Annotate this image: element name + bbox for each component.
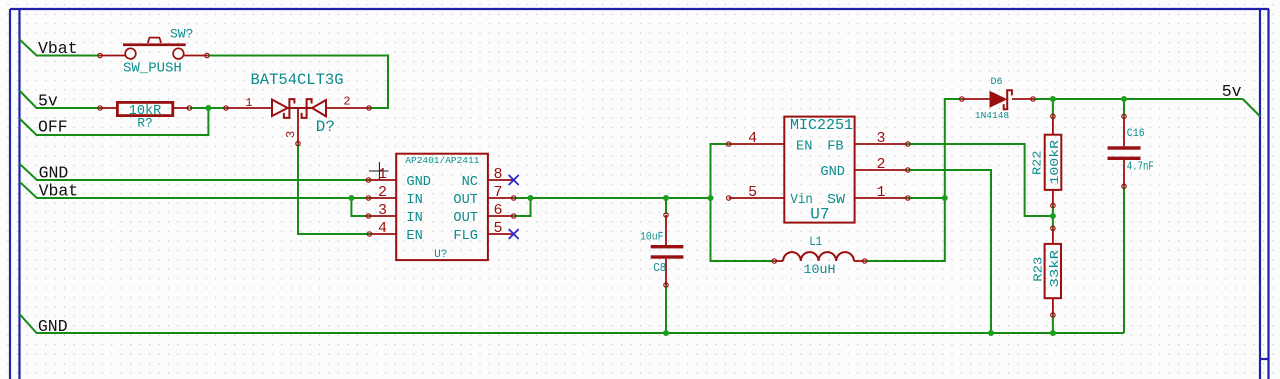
svg-text:OUT: OUT xyxy=(453,210,478,226)
svg-text:1: 1 xyxy=(378,166,387,183)
svg-text:R?: R? xyxy=(137,116,153,131)
svg-text:3: 3 xyxy=(284,131,298,138)
svg-text:5: 5 xyxy=(493,220,502,237)
svg-text:4: 4 xyxy=(748,130,757,147)
svg-text:2: 2 xyxy=(876,156,885,173)
svg-text:SW?: SW? xyxy=(170,27,193,42)
svg-text:3: 3 xyxy=(378,202,387,219)
svg-text:1: 1 xyxy=(245,96,252,110)
svg-text:FLG: FLG xyxy=(453,228,478,244)
svg-text:SW: SW xyxy=(827,192,846,208)
svg-text:4: 4 xyxy=(378,220,387,237)
svg-text:D?: D? xyxy=(316,118,335,136)
svg-text:SW_PUSH: SW_PUSH xyxy=(123,61,182,77)
svg-text:GND: GND xyxy=(820,164,845,180)
svg-text:R23: R23 xyxy=(1032,257,1046,282)
svg-text:D6: D6 xyxy=(990,77,1002,88)
svg-text:BAT54CLT3G: BAT54CLT3G xyxy=(250,71,343,89)
svg-text:OFF: OFF xyxy=(38,118,68,137)
svg-text:10uH: 10uH xyxy=(804,262,836,277)
svg-text:IN: IN xyxy=(406,210,422,226)
svg-text:MIC2251: MIC2251 xyxy=(790,117,853,134)
svg-text:OUT: OUT xyxy=(453,192,478,208)
svg-text:GND: GND xyxy=(38,317,68,336)
svg-text:AP2401/AP2411: AP2401/AP2411 xyxy=(405,155,479,166)
svg-text:1: 1 xyxy=(876,184,885,201)
svg-text:5v: 5v xyxy=(38,92,58,111)
svg-text:NC: NC xyxy=(462,174,478,190)
svg-text:C16: C16 xyxy=(1127,128,1145,140)
svg-text:IN: IN xyxy=(406,192,422,208)
svg-text:2: 2 xyxy=(343,95,350,109)
svg-text:GND: GND xyxy=(39,164,69,183)
svg-text:7: 7 xyxy=(493,184,502,201)
svg-text:U7: U7 xyxy=(810,206,829,224)
svg-text:6: 6 xyxy=(493,202,502,219)
svg-text:3: 3 xyxy=(876,130,885,147)
svg-text:1N4148: 1N4148 xyxy=(975,110,1010,121)
svg-text:2: 2 xyxy=(378,184,387,201)
svg-text:33kR: 33kR xyxy=(1048,250,1062,288)
svg-text:U?: U? xyxy=(434,249,447,261)
svg-text:EN: EN xyxy=(406,228,422,244)
svg-text:FB: FB xyxy=(827,139,843,155)
svg-text:C8: C8 xyxy=(653,262,666,275)
svg-text:GND: GND xyxy=(406,174,431,190)
svg-text:Vbat: Vbat xyxy=(39,182,79,201)
svg-text:100kR: 100kR xyxy=(1048,140,1062,185)
svg-text:8: 8 xyxy=(493,166,502,183)
svg-text:10uF: 10uF xyxy=(640,231,664,243)
svg-text:L1: L1 xyxy=(809,235,822,249)
svg-text:4.7nF: 4.7nF xyxy=(1127,161,1154,174)
svg-text:Vbat: Vbat xyxy=(38,39,78,58)
svg-text:EN: EN xyxy=(796,139,812,155)
svg-text:5: 5 xyxy=(748,184,757,201)
svg-text:R22: R22 xyxy=(1031,151,1045,176)
svg-text:5v: 5v xyxy=(1222,82,1242,101)
